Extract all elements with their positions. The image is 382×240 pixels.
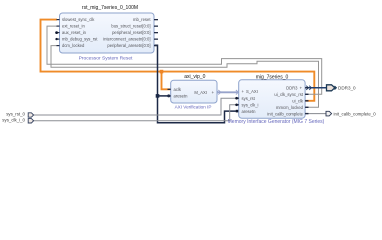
- svg-text:Memory Interface Generator (MI: Memory Interface Generator (MIG 7 Series…: [228, 119, 325, 125]
- svg-text:init_calib_complete: init_calib_complete: [267, 111, 303, 116]
- U1 right pins: [154, 19, 158, 46]
- svg-text:ui_clk: ui_clk: [292, 98, 304, 103]
- wire net sys_clk_i_0: [33, 105, 236, 121]
- junction peripheral_aresetn: [156, 94, 160, 98]
- svg-text:sys_rst_0: sys_rst_0: [6, 112, 25, 117]
- svg-text:sys_rst: sys_rst: [242, 96, 256, 101]
- pin blob mig aresetn: [236, 110, 240, 113]
- svg-text:bus_struct_reset[0:0]: bus_struct_reset[0:0]: [111, 24, 150, 29]
- external port sys_clk_i_0: [28, 119, 33, 123]
- block U3 mig_7series_0 (MIG): [239, 80, 305, 118]
- junction ui_clk net: [160, 70, 164, 74]
- block U1 rst_mig_7series_0_100M (Processor System Reset): [60, 13, 155, 53]
- svg-text:mmcm_locked: mmcm_locked: [276, 105, 304, 110]
- svg-text:aresetn: aresetn: [174, 94, 189, 99]
- svg-text:peripheral_aresetn[0:0]: peripheral_aresetn[0:0]: [107, 43, 150, 48]
- svg-text:+: +: [300, 85, 303, 90]
- svg-text:sys_clk_i_0: sys_clk_i_0: [2, 117, 25, 122]
- U1 pin labels: [62, 17, 151, 48]
- svg-text:mig_7series_0: mig_7series_0: [256, 74, 289, 80]
- svg-text:S_AXI: S_AXI: [246, 89, 258, 94]
- U3 pin labels: [242, 85, 304, 116]
- svg-text:aux_reset_in: aux_reset_in: [62, 30, 87, 35]
- svg-text:DDR3: DDR3: [286, 85, 298, 90]
- svg-text:aresetn: aresetn: [242, 109, 257, 114]
- svg-text:ext_reset_in: ext_reset_in: [62, 24, 85, 29]
- U3 right pins: [305, 87, 308, 114]
- svg-text:slowest_sync_clk: slowest_sync_clk: [62, 17, 95, 22]
- svg-text:+: +: [212, 90, 215, 95]
- wire DDR3 interface bus: [306, 87, 327, 89]
- svg-text:peripheral_reset[0:0]: peripheral_reset[0:0]: [112, 30, 150, 35]
- svg-text:AXI Verification IP: AXI Verification IP: [175, 104, 212, 109]
- external port sys_rst_0: [28, 113, 33, 117]
- svg-text:sys_clk_i: sys_clk_i: [242, 102, 259, 107]
- svg-text:M_AXI: M_AXI: [194, 90, 207, 95]
- wire branch peripheral_aresetn to axi_vip aresetn: [158, 95, 171, 97]
- U1 left pins: [55, 19, 59, 46]
- U2 pin labels: [174, 87, 215, 99]
- external port init_calib_complete_0: [326, 111, 332, 116]
- svg-text:init_calib_complete_0: init_calib_complete_0: [334, 111, 377, 116]
- svg-text:mb_debug_sys_rst: mb_debug_sys_rst: [62, 37, 98, 42]
- svg-text:aclk: aclk: [174, 87, 182, 92]
- wire net ui_clk_sync_rst (gray1): [47, 26, 322, 94]
- svg-text:axi_vip_0: axi_vip_0: [184, 74, 205, 80]
- external interface port DDR3_0: [327, 85, 335, 91]
- wire net ui_clk (orange clock net): [41, 20, 315, 101]
- svg-text:ui_clk_sync_rst: ui_clk_sync_rst: [274, 92, 303, 97]
- svg-text:Processor System Reset: Processor System Reset: [79, 55, 133, 61]
- svg-text:dcm_locked: dcm_locked: [62, 43, 85, 48]
- wire net init_calib_complete: [306, 113, 327, 115]
- block U2 axi_vip_0 (AXI Verification IP): [171, 80, 217, 103]
- U3 left pins: [235, 97, 238, 106]
- svg-text:mb_reset: mb_reset: [133, 17, 151, 22]
- svg-text:rst_mig_7series_0_100M: rst_mig_7series_0_100M: [82, 5, 138, 11]
- U2 pins: [168, 89, 171, 97]
- svg-text:interconnect_aresetn[0:0]: interconnect_aresetn[0:0]: [103, 37, 150, 42]
- wire net peripheral_aresetn (navy): [152, 45, 239, 123]
- wire net sys_rst_0: [33, 98, 236, 115]
- svg-text:DDR3_0: DDR3_0: [338, 85, 356, 90]
- wire M_AXI to S_AXI interface bus: [216, 90, 241, 95]
- wire net mmcm_locked (gray2): [51, 46, 319, 108]
